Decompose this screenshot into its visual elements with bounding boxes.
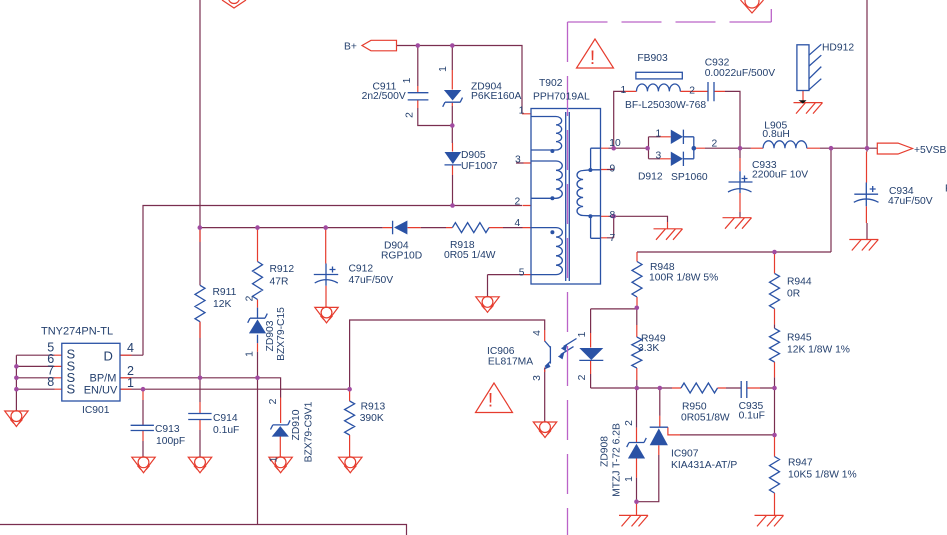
svg-text:EN/UV: EN/UV xyxy=(84,385,118,397)
svg-text:100R 1/8W 5%: 100R 1/8W 5% xyxy=(649,273,718,284)
svg-text:C912: C912 xyxy=(349,264,374,275)
svg-text:P6KE160A: P6KE160A xyxy=(471,91,522,102)
svg-text:BF-L25030W-768: BF-L25030W-768 xyxy=(625,100,706,111)
svg-text:ZD908: ZD908 xyxy=(600,436,611,467)
svg-text:SP1060: SP1060 xyxy=(671,172,708,183)
svg-text:2: 2 xyxy=(405,112,416,118)
svg-text:10: 10 xyxy=(609,138,621,149)
svg-text:1: 1 xyxy=(624,476,635,482)
svg-text:0.0022uF/500V: 0.0022uF/500V xyxy=(705,68,776,79)
svg-text:8: 8 xyxy=(610,210,616,221)
svg-text:C913: C913 xyxy=(155,424,180,435)
svg-text:9: 9 xyxy=(610,164,616,175)
svg-text:EL817MA: EL817MA xyxy=(488,357,533,368)
svg-text:3: 3 xyxy=(532,375,543,381)
svg-text:FB903: FB903 xyxy=(637,53,668,64)
svg-text:ZD903: ZD903 xyxy=(265,320,276,351)
svg-text:IC907: IC907 xyxy=(671,449,699,460)
svg-text:UF1007: UF1007 xyxy=(461,161,498,172)
svg-text:100pF: 100pF xyxy=(156,436,185,447)
svg-text:5: 5 xyxy=(519,268,525,279)
svg-text:12K: 12K xyxy=(213,299,231,310)
svg-text:0R: 0R xyxy=(787,289,800,300)
svg-text:4: 4 xyxy=(127,341,134,355)
svg-text:0R051/8W: 0R051/8W xyxy=(681,413,730,424)
svg-text:4: 4 xyxy=(532,330,543,336)
svg-text:1: 1 xyxy=(519,106,525,117)
svg-text:2: 2 xyxy=(268,398,279,404)
svg-text:ZD910: ZD910 xyxy=(291,409,302,440)
svg-text:B+: B+ xyxy=(344,42,357,53)
svg-text:4: 4 xyxy=(515,218,521,229)
svg-text:47uF/50V: 47uF/50V xyxy=(888,196,933,207)
svg-text:!: ! xyxy=(590,48,595,69)
svg-text:2: 2 xyxy=(515,197,521,208)
svg-text:KIA431A-AT/P: KIA431A-AT/P xyxy=(671,460,737,471)
svg-text:R945: R945 xyxy=(787,333,812,344)
svg-text:IC906: IC906 xyxy=(487,346,515,357)
svg-text:0R05 1/4W: 0R05 1/4W xyxy=(444,250,496,261)
svg-text:0.8uH: 0.8uH xyxy=(762,129,789,140)
svg-text:D: D xyxy=(104,348,113,363)
svg-text:2: 2 xyxy=(245,295,256,301)
svg-text:1: 1 xyxy=(268,456,279,462)
svg-text:C914: C914 xyxy=(213,413,238,424)
svg-text:S: S xyxy=(67,382,76,397)
svg-text:D912: D912 xyxy=(638,171,663,182)
svg-text:!: ! xyxy=(488,391,493,412)
svg-text:BZX79-C9V1: BZX79-C9V1 xyxy=(304,401,315,462)
svg-text:R947: R947 xyxy=(788,458,813,469)
svg-text:390K: 390K xyxy=(360,413,384,424)
svg-text:R944: R944 xyxy=(787,277,812,288)
svg-text:3: 3 xyxy=(656,151,662,162)
svg-text:R948: R948 xyxy=(650,262,675,273)
svg-text:RGP10D: RGP10D xyxy=(381,251,422,262)
svg-text:D905: D905 xyxy=(461,150,486,161)
svg-text:3.3K: 3.3K xyxy=(638,343,659,354)
svg-text:BZX79-C15: BZX79-C15 xyxy=(276,307,287,361)
svg-text:47uF/50V: 47uF/50V xyxy=(349,275,394,286)
svg-text:MTZJ T-72 6.2B: MTZJ T-72 6.2B xyxy=(612,423,623,497)
svg-text:IC901: IC901 xyxy=(82,405,110,416)
svg-text:7: 7 xyxy=(610,233,616,244)
svg-text:PPH7019AL: PPH7019AL xyxy=(533,92,590,103)
svg-text:BP/M: BP/M xyxy=(90,373,117,385)
svg-text:10K5 1/8W 1%: 10K5 1/8W 1% xyxy=(788,470,857,481)
svg-text:T902: T902 xyxy=(539,78,563,89)
svg-text:C932: C932 xyxy=(705,58,730,69)
svg-text:R912: R912 xyxy=(270,264,295,275)
svg-text:2: 2 xyxy=(577,374,588,380)
svg-text:1: 1 xyxy=(402,77,413,83)
svg-text:2: 2 xyxy=(624,420,635,426)
svg-text:2200uF 10V: 2200uF 10V xyxy=(752,170,808,181)
svg-text:1: 1 xyxy=(127,376,134,390)
svg-text:R913: R913 xyxy=(361,402,386,413)
svg-text:1: 1 xyxy=(577,331,588,337)
svg-text:2: 2 xyxy=(689,86,695,97)
svg-text:R911: R911 xyxy=(213,287,237,298)
svg-text:TNY274PN-TL: TNY274PN-TL xyxy=(41,326,113,338)
svg-text:1: 1 xyxy=(438,66,449,72)
svg-text:+5VSB: +5VSB xyxy=(914,145,946,156)
svg-text:0.1uF: 0.1uF xyxy=(213,425,239,436)
svg-text:47R: 47R xyxy=(270,277,289,288)
svg-text:R950: R950 xyxy=(682,402,707,413)
svg-text:0.1uF: 0.1uF xyxy=(739,411,765,422)
svg-text:2n2/500V: 2n2/500V xyxy=(362,91,406,102)
svg-text:12K 1/8W 1%: 12K 1/8W 1% xyxy=(787,345,850,356)
svg-text:3: 3 xyxy=(515,155,521,166)
svg-text:2: 2 xyxy=(712,138,718,149)
svg-text:1: 1 xyxy=(656,128,662,139)
svg-text:1: 1 xyxy=(245,351,256,357)
svg-text:HD912: HD912 xyxy=(822,43,854,54)
svg-text:1: 1 xyxy=(621,85,627,96)
svg-text:8: 8 xyxy=(47,375,54,389)
